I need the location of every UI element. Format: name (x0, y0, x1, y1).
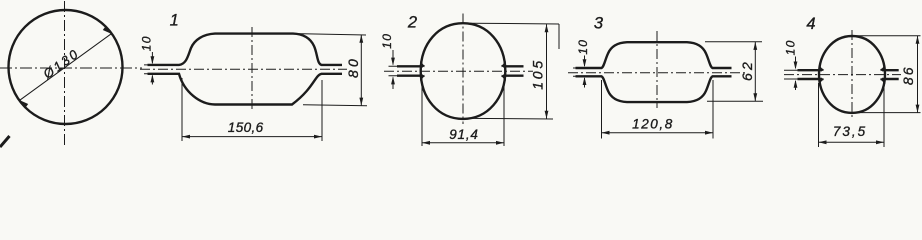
shape 4 vertical centerline (851, 30, 853, 119)
shape 2 dim 105 bottom extension (469, 117, 553, 120)
shape 3 dim 120,8 left extension (601, 80, 603, 139)
shape 4 dim 86 arrow bottom (916, 105, 920, 113)
circle horizontal centerline (0, 67, 142, 69)
shape 2 dim 10 arrow up (391, 76, 395, 84)
shape 3 dim 62 line (754, 42, 756, 101)
shape 2 dim 91,4 arrow left (422, 141, 430, 145)
svg-text:10: 10 (380, 33, 394, 49)
shape 3 dim 62 arrow bottom (753, 93, 757, 101)
shape 1 dim 150,6 line (182, 136, 322, 138)
shape 2 left tube (397, 66, 423, 75)
shape 2 dim 91,4 left extension (421, 79, 423, 146)
shape 1 dim 80 bottom extension (303, 105, 367, 106)
shape 1 horizontal centerline (140, 68, 347, 70)
svg-text:4: 4 (806, 15, 815, 33)
shape 4 dim 10 extension ticks (784, 70, 800, 79)
svg-text:105: 105 (530, 58, 546, 90)
shape 4 dim 10 arrow up (794, 80, 798, 88)
shape 3 dim 62 top extension (705, 41, 762, 43)
shape 1 dim 150,6 arrow left (182, 135, 190, 139)
shape 4 body upper outline (819, 36, 885, 113)
shape 4 dim 10 arrow down (794, 62, 798, 70)
shape 4 dim 73,5 right extension (883, 83, 885, 147)
shape 2 body upper outline (421, 23, 506, 119)
circle blank Ø130 (9, 10, 123, 124)
shape 1 dim 80 line (360, 35, 362, 106)
shape 1 dim 10 line below (151, 76, 153, 85)
shape 4 dim 86 top extension (856, 35, 921, 37)
arrow lower-left of diameter (19, 99, 29, 107)
shape 3 dim 120,8 line (602, 132, 714, 134)
shape 3 dim 10 arrow up (583, 77, 587, 85)
shape 1 body lower outline (148, 74, 343, 105)
shape 3 vertical centerline (656, 31, 658, 108)
shape 4 dim 73,5 arrow left (819, 140, 827, 144)
svg-text:120,8: 120,8 (632, 117, 674, 132)
shape 2 dim 91,4 arrow right (496, 141, 504, 145)
shape 3 dim 120,8 arrow right (705, 131, 713, 135)
shape 2 dim 105 top extension (470, 22, 559, 25)
shape 4 dim 73,5 line (819, 141, 885, 143)
shape 4 dim 86 arrow top (916, 36, 920, 44)
shape 2 dim 105 line (546, 24, 548, 118)
shape 3 dim 62 bottom extension (707, 100, 763, 102)
shape 1 vertical centerline (251, 27, 253, 111)
shape 4 dim 10 line below (795, 81, 797, 90)
shape 4 dim 86 bottom extension (858, 112, 921, 114)
svg-text:10: 10 (576, 39, 590, 55)
shape 4 dim 73,5 left extension (818, 83, 820, 147)
shape 2 horizontal centerline (384, 70, 533, 72)
shape 2 right tube (503, 66, 524, 75)
shape 3 dim 10 arrow down (583, 59, 587, 67)
arrow upper-right of diameter (103, 27, 113, 35)
svg-text:3: 3 (594, 15, 604, 33)
shape 2 junction fillets (421, 62, 505, 81)
shape 1 dim 10 arrow up (151, 74, 155, 82)
shape 1 dim 150,6 left extension (181, 78, 183, 141)
shape 3 body lower outline (576, 76, 732, 102)
svg-text:150,6: 150,6 (228, 120, 264, 135)
svg-text:73,5: 73,5 (833, 124, 867, 139)
shape 4 dim 10 line above (795, 57, 797, 69)
shape 1 dim 10 arrow down (151, 56, 155, 64)
shape 3 dim 10 line above (584, 56, 586, 67)
shape 3 dim 10 extension ticks (573, 68, 585, 76)
shape 3 dim 120,8 arrow left (602, 131, 610, 135)
shape 4 left tube (798, 70, 823, 79)
shape 4 junction fillets (820, 66, 885, 84)
shape 2 dim 10 extension ticks (389, 66, 401, 75)
svg-text:10: 10 (784, 39, 798, 55)
shape 2 dim 10 line above (392, 50, 394, 65)
shape 1 dim 80 arrow top (359, 35, 363, 43)
svg-text:1: 1 (170, 12, 179, 30)
shape 2 dim 10 line below (392, 78, 394, 90)
shape 3 dim 10 line below (584, 78, 586, 88)
svg-text:80: 80 (345, 56, 361, 78)
svg-text:2: 2 (407, 14, 417, 32)
shape 3 body upper outline (576, 42, 732, 68)
shape 4 dim 73,5 arrow right (876, 140, 884, 144)
shape 1 dim 80 top extension (296, 34, 366, 35)
shape 3 dim 62 arrow top (753, 42, 757, 50)
circle vertical centerline (64, 1, 66, 145)
shape 2 dim 10 arrow down (391, 58, 395, 66)
svg-text:62: 62 (739, 59, 755, 81)
shape 4 horizontal centerline (784, 74, 901, 76)
circle diagonal diameter dimension line (20, 34, 111, 100)
shape 1 dim 150,6 right extension (321, 80, 323, 141)
shape 3 horizontal centerline (568, 72, 748, 74)
shape 2 top extension vertical stub (558, 24, 560, 49)
shape 2 dim 105 arrow top (545, 24, 549, 32)
shape 4 right tube (882, 70, 899, 79)
shape 4 dim 86 line (917, 36, 919, 113)
shape 2 dim 91,4 right extension (503, 79, 505, 146)
shape 1 dim 80 arrow bottom (359, 98, 363, 106)
shape 2 dim 91,4 line (422, 142, 504, 144)
corner artifact bottom-left (0, 136, 10, 147)
shape 1 body upper outline (148, 34, 343, 65)
shape 1 dim 10 extension ticks (144, 65, 158, 74)
svg-text:86: 86 (900, 66, 916, 86)
svg-text:91,4: 91,4 (449, 127, 478, 142)
shape 1 dim 10 line above (151, 52, 153, 63)
shape 2 vertical centerline (462, 14, 464, 125)
svg-text:10: 10 (140, 35, 154, 51)
shape 3 dim 120,8 right extension (712, 80, 714, 139)
shape 2 dim 105 arrow bottom (545, 111, 549, 119)
shape 1 dim 150,6 arrow right (314, 135, 322, 139)
